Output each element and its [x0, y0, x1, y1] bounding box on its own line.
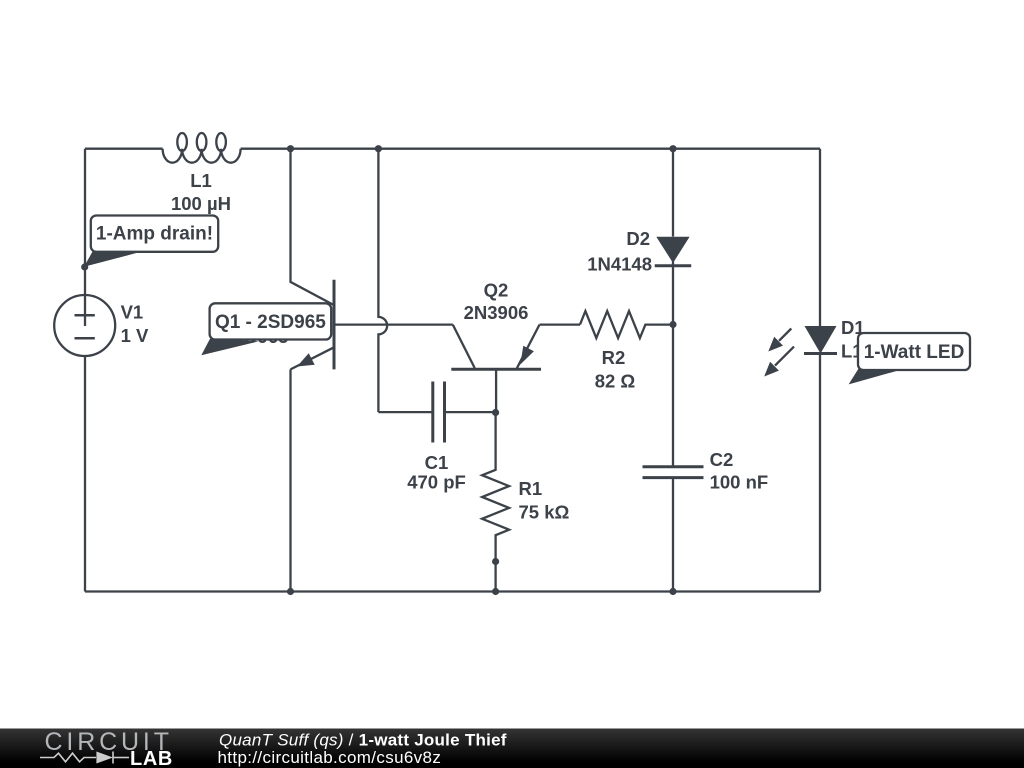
- svg-text:Q1 - 2SD965: Q1 - 2SD965: [215, 312, 326, 333]
- svg-text:1-Amp drain!: 1-Amp drain!: [96, 224, 213, 245]
- svg-text:C1: C1: [425, 452, 449, 473]
- svg-text:R2: R2: [602, 347, 626, 368]
- svg-text:Q2: Q2: [484, 280, 509, 301]
- svg-text:http://circuitlab.com/csu6v8z: http://circuitlab.com/csu6v8z: [218, 748, 442, 767]
- svg-text:100 nF: 100 nF: [710, 472, 769, 493]
- svg-text:2N3906: 2N3906: [464, 302, 529, 323]
- svg-text:D2: D2: [626, 228, 650, 249]
- svg-text:V1: V1: [121, 301, 144, 322]
- svg-text:C2: C2: [710, 449, 734, 470]
- svg-text:470 pF: 470 pF: [407, 472, 466, 493]
- svg-text:R1: R1: [519, 478, 543, 499]
- svg-text:1-Watt LED: 1-Watt LED: [864, 342, 965, 363]
- svg-text:LAB: LAB: [130, 748, 173, 768]
- svg-text:QuanT Suff (qs) / 1-watt Joule: QuanT Suff (qs) / 1-watt Joule Thief: [219, 730, 507, 749]
- svg-text:1 V: 1 V: [121, 325, 149, 346]
- svg-text:82 Ω: 82 Ω: [595, 371, 636, 392]
- svg-text:L1: L1: [190, 170, 212, 191]
- svg-text:75 kΩ: 75 kΩ: [519, 502, 570, 523]
- svg-text:1N4148: 1N4148: [587, 253, 652, 274]
- svg-text:100 µH: 100 µH: [171, 193, 231, 214]
